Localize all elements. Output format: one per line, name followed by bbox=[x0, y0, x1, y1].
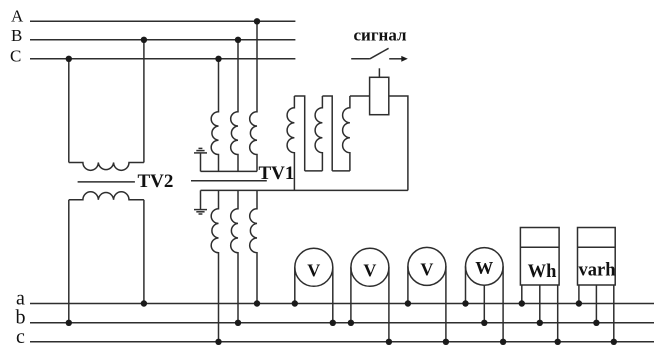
bus C bbox=[30, 58, 295, 60]
TV1 tertiary winding 2 (coil side) bbox=[315, 96, 322, 171]
voltmeter V1 (a-b) bbox=[295, 248, 333, 286]
tertiary winding 2 top + return bbox=[322, 96, 332, 171]
bus c bbox=[30, 341, 654, 343]
voltmeter V3 (a-c) bbox=[408, 247, 446, 285]
wire C to TV1 bbox=[211, 59, 218, 172]
bus B bbox=[30, 39, 295, 41]
TV1 primary star bar bbox=[201, 170, 258, 172]
svg-text:W: W bbox=[475, 258, 493, 278]
svg-text:Wh: Wh bbox=[528, 262, 558, 282]
node: TV1 to b bbox=[235, 320, 241, 326]
svg-text:A: A bbox=[11, 6, 24, 25]
wire: w1 to w2 bbox=[305, 170, 323, 172]
svg-text:B: B bbox=[11, 26, 22, 45]
wire A to TV1 bbox=[250, 21, 257, 171]
node: B junction bbox=[235, 37, 241, 43]
node: TV1 to a bbox=[254, 300, 260, 306]
node: V1 to a bbox=[292, 300, 298, 306]
node: V2 to b bbox=[348, 320, 354, 326]
signal contact (switch) bbox=[351, 58, 370, 60]
transformer TV2 secondary winding bbox=[68, 200, 70, 323]
relay contact stub bbox=[378, 68, 380, 77]
node: W to b bbox=[481, 320, 487, 326]
node: A junction bbox=[254, 18, 260, 24]
energy meter varh bbox=[578, 228, 616, 286]
node: V1 to b bbox=[330, 320, 336, 326]
node: C junction bbox=[215, 56, 221, 62]
wattmeter W bbox=[466, 248, 504, 286]
node: varh to c bbox=[611, 339, 617, 345]
wire: w3 top to relay bbox=[350, 95, 370, 97]
node: C to TV2 bbox=[66, 56, 72, 62]
svg-text:C: C bbox=[10, 46, 21, 65]
ground (TV1 secondary neutral) bbox=[200, 190, 202, 209]
node: TV2 to b bbox=[66, 320, 72, 326]
bus a bbox=[30, 303, 654, 305]
svg-text:V: V bbox=[307, 260, 320, 280]
wire: w2 to w3 bbox=[332, 170, 350, 172]
node: Wh to b bbox=[537, 320, 543, 326]
TV1 tertiary winding 3 (coil side) bbox=[343, 96, 350, 171]
TV2 core bbox=[78, 181, 135, 183]
node: TV2 to a bbox=[141, 300, 147, 306]
node: varh to b bbox=[593, 320, 599, 326]
TV1 tertiary winding 1 (coil side) bbox=[287, 96, 294, 190]
svg-text:TV2: TV2 bbox=[138, 171, 174, 192]
ground (TV1 primary neutral) bbox=[200, 153, 202, 172]
TV1 secondary winding to b bbox=[231, 190, 238, 322]
bus A bbox=[30, 20, 295, 22]
node: W to a bbox=[462, 300, 468, 306]
signal arrow bbox=[389, 58, 401, 60]
node: V3 to a bbox=[405, 300, 411, 306]
TV1 secondary winding to c bbox=[211, 190, 218, 341]
wire: relay to right leg bbox=[389, 96, 408, 190]
TV1 secondary bar / broken-delta bus bbox=[201, 189, 408, 191]
svg-text:сигнал: сигнал bbox=[354, 25, 408, 44]
node: V3 to c bbox=[443, 339, 449, 345]
node: varh to a bbox=[576, 300, 582, 306]
TV1 core bbox=[191, 180, 267, 182]
node: TV1 to c bbox=[215, 339, 221, 345]
bus b bbox=[30, 322, 654, 324]
node: V2 to c bbox=[386, 339, 392, 345]
TV1 secondary winding to a bbox=[250, 190, 257, 303]
node: Wh to a bbox=[519, 300, 525, 306]
node: Wh to c bbox=[555, 339, 561, 345]
node: W to c bbox=[500, 339, 506, 345]
transformer TV2 primary winding bbox=[68, 59, 70, 163]
wire B to TV1 bbox=[231, 40, 238, 172]
W middle leg to b bbox=[483, 285, 485, 323]
voltmeter V2 (b-c) bbox=[351, 248, 389, 286]
svg-text:TV1: TV1 bbox=[259, 163, 295, 184]
svg-text:varh: varh bbox=[579, 260, 617, 280]
svg-text:c: c bbox=[16, 326, 25, 348]
energy meter Wh bbox=[520, 228, 559, 286]
svg-text:V: V bbox=[420, 259, 433, 279]
node: B to TV2 bbox=[141, 37, 147, 43]
relay coil KV bbox=[370, 77, 389, 114]
tertiary winding 1 top + return bbox=[294, 96, 304, 171]
svg-text:V: V bbox=[363, 260, 376, 280]
